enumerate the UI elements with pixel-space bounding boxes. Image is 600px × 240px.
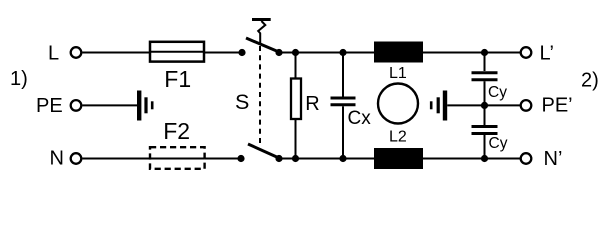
wire F1 to switch <box>204 52 242 54</box>
wire earth to PE' <box>447 104 521 106</box>
terminal L' <box>521 47 532 58</box>
svg-text:Cy: Cy <box>488 84 507 101</box>
wire PE to earth <box>82 104 137 106</box>
terminal PE' <box>521 100 532 111</box>
wire Cy lower to N rail <box>484 135 486 159</box>
node on PE' rail <box>481 102 488 109</box>
wire to Cy top <box>484 53 486 72</box>
capacitor Cy upper <box>472 73 508 101</box>
wire PE' rail to Cy lower <box>484 105 486 125</box>
wire L to F1 <box>82 52 150 54</box>
switch dashed link <box>259 46 261 147</box>
svg-text:L1: L1 <box>389 65 407 82</box>
wire Cx top <box>342 53 344 97</box>
node Cx bottom <box>339 155 346 162</box>
fuse F2 <box>150 118 205 169</box>
capacitor Cx <box>331 98 372 129</box>
blade <box>246 38 279 52</box>
wire L1 to L' <box>423 52 521 54</box>
blade <box>248 144 279 158</box>
svg-text:2): 2) <box>581 70 599 92</box>
node R bottom <box>292 155 299 162</box>
svg-text:N: N <box>50 147 64 169</box>
svg-text:PE: PE <box>36 95 63 117</box>
contact dot left <box>237 155 244 162</box>
terminal N' <box>521 153 532 164</box>
earth symbol right <box>431 91 445 121</box>
svg-text:F1: F1 <box>164 66 191 92</box>
switch actuator spring <box>258 21 265 44</box>
svg-text:F2: F2 <box>163 118 190 144</box>
svg-text:R: R <box>305 93 319 115</box>
node Cx top <box>339 49 346 56</box>
wire N to F2 <box>82 158 150 160</box>
resistor R <box>291 79 320 120</box>
node R top <box>292 49 299 56</box>
wire F2 to switch pole 2 <box>205 158 241 160</box>
wire R bottom <box>295 119 297 159</box>
wire Cy upper to PE' rail <box>484 81 486 105</box>
switch actuator bar <box>252 18 271 21</box>
svg-text:N’: N’ <box>544 148 563 170</box>
switch S bottom pole <box>237 144 282 162</box>
inductor L1 <box>374 42 423 83</box>
capacitor Cy lower <box>472 127 508 153</box>
switch S top pole <box>238 38 282 56</box>
fuse F1 <box>150 42 204 92</box>
contact dot right <box>275 49 282 56</box>
wire switch pole 2 to L2 <box>279 158 374 160</box>
svg-text:Cy: Cy <box>489 135 508 152</box>
wire L2 to N' <box>423 158 521 160</box>
svg-text:1): 1) <box>10 68 28 90</box>
wire switch to L1 <box>279 52 374 54</box>
contact dot right <box>275 155 282 162</box>
contact dot left <box>238 49 245 56</box>
svg-text:S: S <box>235 90 249 114</box>
wire R top <box>295 53 297 79</box>
wire Cx bottom <box>342 106 344 158</box>
node Cy on N rail <box>481 155 488 162</box>
node Cy top on L rail <box>481 49 488 56</box>
earth symbol left <box>139 91 152 121</box>
svg-text:L’: L’ <box>540 43 554 65</box>
svg-text:Cx: Cx <box>348 108 372 129</box>
svg-text:PE’: PE’ <box>542 95 573 117</box>
choke core circle <box>378 84 418 124</box>
inductor L2 <box>374 129 423 170</box>
svg-text:L: L <box>48 43 59 65</box>
svg-text:L2: L2 <box>389 129 407 146</box>
